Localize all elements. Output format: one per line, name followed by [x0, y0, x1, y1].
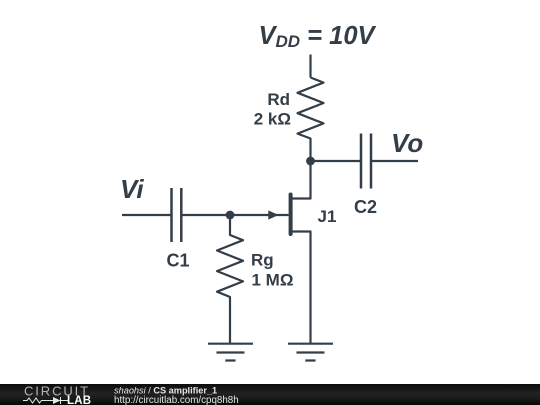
svg-text:Vi: Vi: [120, 174, 144, 204]
svg-text:Rd: Rd: [267, 90, 290, 109]
svg-text:Vo: Vo: [391, 128, 423, 158]
svg-text:C1: C1: [167, 251, 190, 271]
svg-text:C2: C2: [354, 197, 377, 217]
svg-text:Rg: Rg: [251, 251, 274, 270]
svg-text:2 kΩ: 2 kΩ: [254, 110, 291, 129]
svg-text:1 MΩ: 1 MΩ: [252, 271, 294, 290]
svg-text:VDD = 10V: VDD = 10V: [259, 22, 377, 51]
svg-text:J1: J1: [318, 207, 337, 226]
